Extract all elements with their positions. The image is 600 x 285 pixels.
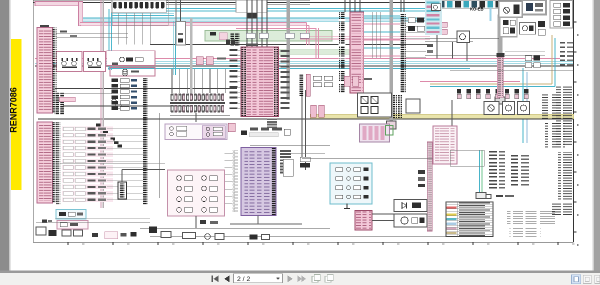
wire lower harness black xyxy=(55,88,237,90)
wire top data link cyan xyxy=(115,8,432,10)
ECM A4 M1 pink block xyxy=(241,44,278,117)
harness column J3 dark xyxy=(400,14,406,93)
wire top harness black 0 xyxy=(33,0,310,2)
harness column J1 dark xyxy=(339,12,345,93)
hour meter box xyxy=(520,22,536,34)
battery boxes right xyxy=(525,56,540,68)
toolbar next-page button xyxy=(288,275,293,282)
fuse panel cyan box xyxy=(330,163,372,204)
page bottom edge shadow xyxy=(0,271,600,274)
light blue riser xyxy=(490,8,492,21)
wire fan between columns xyxy=(364,16,400,56)
monitor ECM right rows xyxy=(280,150,291,174)
connector 4X at teal riser end xyxy=(476,193,486,199)
connector block right of solenoids xyxy=(433,126,457,164)
frame zone numbers bottom xyxy=(82,243,575,244)
breaker box on teal band xyxy=(432,4,441,11)
ground symbol fuse panel xyxy=(344,204,350,209)
frame zone letters right xyxy=(577,34,579,246)
riser gray bar upper-left xyxy=(190,18,193,95)
wire below grid xyxy=(170,113,230,122)
connector small pink beside panel xyxy=(228,123,235,132)
relay box K1 xyxy=(57,51,82,71)
wire short runs right cluster xyxy=(450,51,573,71)
pump box bottom xyxy=(394,214,427,227)
starter box TC xyxy=(457,31,470,43)
right margin connector cluster top xyxy=(550,1,573,29)
toolbar view-mode icon 2 xyxy=(583,275,591,283)
toolbar prev-page button xyxy=(224,275,229,282)
monitor ECM left pin boxes xyxy=(233,150,239,212)
connector pair above relay cluster xyxy=(344,76,372,86)
toolbar view-mode icon selected xyxy=(572,275,581,284)
connector at right gray bar end xyxy=(495,97,505,104)
wire main bus black xyxy=(35,65,573,67)
CAN data link cyan band xyxy=(83,18,430,21)
note paragraph upper xyxy=(507,210,555,226)
wires pink block to boxes xyxy=(372,206,427,221)
wire data link cyan short xyxy=(112,13,174,15)
wire pink pair upper xyxy=(80,22,309,25)
wire sender to relay panel xyxy=(60,162,165,164)
solenoid box P1 xyxy=(484,102,499,115)
drawing frame left border xyxy=(32,0,34,242)
pink risers x316 xyxy=(236,28,318,59)
riser gray bar right xyxy=(498,15,503,54)
bottom row components left extra xyxy=(92,232,137,239)
green highlight band upper xyxy=(205,31,332,46)
component row mid page xyxy=(241,128,290,137)
riser pink strip lower right xyxy=(427,142,432,231)
toolbar view-mode icon 3 clipped xyxy=(595,275,600,283)
ECM left stub rows xyxy=(230,49,242,109)
relay cluster side box xyxy=(406,99,420,113)
DL junction box xyxy=(176,22,186,46)
connector grid divider xyxy=(170,102,225,104)
connector columns mid-page xyxy=(300,74,333,96)
toolbar layout icon 2 xyxy=(325,274,333,282)
connector strip top-left xyxy=(111,0,166,13)
pin ladder column upper-left xyxy=(55,92,65,115)
svg-text:2 / 2: 2 / 2 xyxy=(237,276,250,283)
pin number column left xyxy=(56,122,61,205)
detail outline box xyxy=(450,150,484,166)
connector pairs above ECM xyxy=(226,40,235,46)
wire below relay panel xyxy=(196,216,218,228)
sender box pink bottom-left xyxy=(57,221,88,230)
wire main bus pink xyxy=(35,58,560,60)
teal drop band top-right xyxy=(425,0,442,35)
breaker column xyxy=(112,71,138,110)
yellow spine label RENR7086 xyxy=(9,39,22,190)
bottom row components xyxy=(149,227,270,240)
wire vertical left of panel xyxy=(158,113,160,198)
connector C1 upper pink block xyxy=(37,25,56,113)
riser top cluster drops xyxy=(345,0,404,12)
wire drops from top-left cluster xyxy=(118,13,150,45)
wires mesh top right xyxy=(425,35,499,61)
relay panel box xyxy=(168,170,225,216)
right margin paragraph bottom xyxy=(550,202,573,215)
small cluster far right top xyxy=(538,21,545,35)
feeder bend verticals xyxy=(552,35,555,87)
wire mid page horizontal xyxy=(250,145,330,147)
monitor ECM lavender block xyxy=(241,148,276,216)
risers center white gap xyxy=(372,12,380,58)
riser cyan pair x173 xyxy=(173,21,175,75)
switch box S2 lower xyxy=(110,67,155,76)
green highlight band lower xyxy=(250,50,356,55)
pink riser pair to ECM xyxy=(307,22,310,45)
wire main bus teal 2 xyxy=(35,63,573,65)
toolbar first-page button xyxy=(212,276,219,283)
sensor boxes bottom far left xyxy=(36,227,83,236)
toolbar layout icon 1 xyxy=(312,274,320,282)
note paragraph lower xyxy=(510,229,541,237)
label pair left edge xyxy=(42,220,52,224)
pin column harness mid-left xyxy=(143,78,148,205)
harness column J2 pink xyxy=(350,12,364,93)
riser cyan pair xyxy=(109,9,111,70)
key switch panel gray border xyxy=(499,1,523,17)
staircase connectors xyxy=(96,124,122,148)
column gaps J1 xyxy=(339,19,346,84)
connector grid rows xyxy=(171,93,225,112)
solenoid box P2 xyxy=(503,102,515,115)
riser grid feeders xyxy=(172,69,225,93)
wire long mid-lower xyxy=(290,154,446,159)
wire harness left horizontal 2 xyxy=(55,93,112,95)
wire main bus teal 1 xyxy=(100,60,573,62)
wire bottom run 2 xyxy=(150,235,446,237)
wire top data link cyan 2 xyxy=(115,10,432,12)
monitor ECM left stubs xyxy=(225,153,233,203)
toolbar background xyxy=(0,273,600,285)
relay box K2 xyxy=(84,51,106,71)
solenoid box P3 xyxy=(518,102,530,115)
sender box cyan bottom-left xyxy=(56,210,86,220)
wire top harness black 2 xyxy=(112,4,310,6)
svg-text:KO-EB: KO-EB xyxy=(470,7,484,12)
wire under yellow band xyxy=(38,118,573,120)
connector stack right-mid xyxy=(427,22,448,34)
gauge panel gray border xyxy=(522,0,546,15)
connector block mid-right xyxy=(360,124,390,142)
riser left block taps xyxy=(176,0,180,23)
viewer right gray margin xyxy=(594,0,600,272)
drawing frame bottom border xyxy=(33,242,574,245)
wire vertical right of panel xyxy=(301,92,303,160)
relay cluster pin strips xyxy=(393,95,402,118)
ECM side label rows xyxy=(281,50,290,109)
wires C1 to breaker column xyxy=(56,31,128,38)
connector at gray bar center end xyxy=(387,121,397,129)
feeder tan right xyxy=(430,83,552,85)
wire bottom-left runs xyxy=(36,218,150,222)
column gaps J2 xyxy=(351,21,364,86)
wire stubs right of J3 xyxy=(406,20,426,57)
legend list center-right xyxy=(542,93,564,119)
wire top harness black xyxy=(33,2,545,4)
riser pink-gray bar left xyxy=(101,0,103,208)
drawing frame right border xyxy=(574,0,577,242)
riser gray bar center xyxy=(390,0,393,124)
switch box S1 xyxy=(107,51,155,66)
harness boundary box top-left xyxy=(112,0,168,25)
wire pink pipe top-left xyxy=(35,2,83,26)
pink pin column below gray bar xyxy=(497,53,505,97)
wire main bus teal 3 xyxy=(108,68,470,70)
small boxes right of J3 xyxy=(408,18,424,32)
monitor ECM right aux box xyxy=(283,159,293,176)
connector pair below mid xyxy=(311,105,324,117)
legend title icon xyxy=(486,195,514,199)
sensor label rows left (banded) xyxy=(62,127,143,203)
riser mid vertical xyxy=(304,90,306,170)
connector C2 lower pink block xyxy=(37,122,56,203)
wire pink pair mid xyxy=(300,37,430,39)
marks right of fuse panel xyxy=(418,170,425,187)
svg-text:RENR7086: RENR7086 xyxy=(9,87,19,133)
breaker circle lower xyxy=(112,99,122,108)
detail bullet list xyxy=(545,122,565,148)
connector block small left-bottom xyxy=(118,182,127,199)
relay panel gray border xyxy=(500,17,517,37)
small marks below teal band xyxy=(427,44,433,53)
junction box top-middle xyxy=(236,0,267,19)
riser ECM feeders xyxy=(247,0,267,47)
wire bottom run 1 xyxy=(140,227,330,229)
connector pairs row right xyxy=(457,89,528,99)
toolbar last-page button xyxy=(298,276,307,283)
wire harness left horizontal xyxy=(63,105,192,107)
wire mid harness black xyxy=(150,44,430,46)
diode box bottom xyxy=(394,200,427,212)
right margin text rows mid xyxy=(560,42,573,66)
relay cluster center xyxy=(358,93,392,117)
green sensor box xyxy=(386,126,394,136)
junction panel mid-left xyxy=(165,124,227,140)
riser gray bar center-left xyxy=(287,0,291,100)
riser cyan right pair xyxy=(523,68,527,143)
aux boxes left of fuse panel xyxy=(300,157,310,168)
wire right mid vertical xyxy=(451,100,453,152)
viewer left gray margin xyxy=(0,0,9,272)
instrument cluster top-right xyxy=(437,0,537,8)
toolbar page-number input 2/2 xyxy=(234,274,283,283)
connector pink block bottom-center xyxy=(355,211,372,231)
riser teal right side xyxy=(480,150,482,193)
gauge pin list tables right xyxy=(489,151,529,189)
feeder pink right xyxy=(420,81,520,83)
right margin pin list upper xyxy=(556,86,572,146)
ECM bottom taps xyxy=(267,119,277,129)
green band fuse boxes xyxy=(246,33,309,38)
label box harness left xyxy=(59,97,75,101)
connector boxes above grid xyxy=(196,57,226,65)
yellow battery band xyxy=(310,114,574,118)
monitor ECM bottom wire xyxy=(230,216,302,225)
feeder teal right xyxy=(430,86,555,88)
right margin pin list lower xyxy=(558,152,572,200)
legend color table xyxy=(446,202,493,237)
wire from small connector xyxy=(122,170,165,183)
